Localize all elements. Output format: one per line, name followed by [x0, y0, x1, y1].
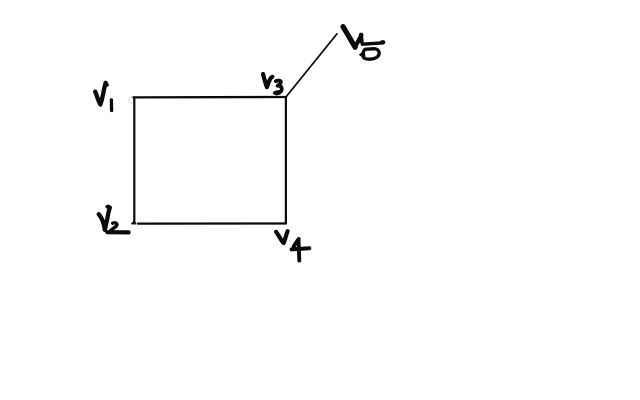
node V1: [95, 83, 111, 111]
wire V1-V3 top edge: [133, 96, 286, 99]
wire V1-V2 left edge: [133, 97, 135, 220]
node V3: [263, 74, 282, 93]
wire V3-V4 right edge: [285, 97, 287, 224]
stray pen mark near V1 corner: [129, 96, 132, 103]
node V2: [99, 206, 129, 232]
junction tick at V2 corner: [131, 221, 136, 224]
wire V2-V4 bottom edge: [138, 222, 286, 224]
node V5: [343, 27, 383, 60]
wire V3-V5 diagonal edge: [286, 34, 337, 97]
node V5 pen-pressure wedge: [359, 50, 366, 59]
node V4: [276, 231, 309, 260]
